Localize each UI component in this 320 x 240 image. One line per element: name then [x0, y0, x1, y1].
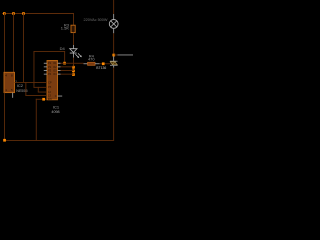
wire H5 EN to IC1 — [36, 98, 47, 101]
node bottom left corner — [3, 139, 6, 142]
node rail junction 2 — [12, 12, 15, 15]
IC2 body 555 — [4, 72, 15, 92]
wire branch to right edge — [114, 54, 118, 57]
wire row O3 stub — [58, 69, 74, 72]
svg-text:C: C — [55, 94, 57, 98]
LED arrow 1 — [75, 54, 78, 57]
svg-text:CP: CP — [48, 81, 52, 85]
svg-text:P2: P2 — [48, 65, 52, 69]
svg-text:P5: P5 — [48, 85, 52, 89]
wire LED cathode down across output rows — [72, 58, 75, 75]
wire D4 branch vertical to row O1 — [63, 51, 66, 63]
node rail junction 1 — [3, 12, 6, 15]
lead triac bottom — [112, 66, 115, 68]
pin stub P4 — [44, 73, 47, 76]
wire bottom ground rail — [4, 139, 114, 142]
wire row O4 stub — [58, 73, 74, 76]
svg-text:O2: O2 — [53, 65, 57, 69]
LED D4 triangle — [70, 49, 77, 53]
node H5 junction — [42, 98, 45, 101]
wire V8 EN down to bottom rail — [35, 99, 38, 141]
wire R4 to triac gate — [100, 62, 111, 65]
node stub O2 — [72, 66, 75, 69]
pin stub C output — [58, 95, 63, 98]
wire H3 to IC1 — [38, 91, 47, 94]
lead R4 right — [95, 62, 100, 65]
node D4 branch on row O1 — [63, 62, 66, 65]
lead triac top — [112, 56, 115, 61]
pin stub P1 — [44, 62, 47, 65]
wire V3 rail down to H1 — [22, 13, 25, 83]
node gate junction — [102, 62, 105, 65]
lamp L1 — [109, 20, 118, 29]
IC1 body — [47, 61, 58, 100]
wire R3 to LED — [72, 33, 75, 45]
svg-text:P3: P3 — [48, 68, 52, 72]
svg-text:1.5K: 1.5K — [61, 26, 70, 31]
wire V1 rail to IC2 pin4 — [3, 13, 6, 73]
wire H2 to IC1 — [34, 86, 48, 89]
wire D4 branch horizontal — [34, 50, 66, 53]
lead LED cathode — [72, 54, 75, 58]
svg-text:EN: EN — [48, 97, 52, 101]
wire top supply rail — [2, 13, 74, 14]
lead LED anode — [72, 45, 75, 49]
node stub O3 — [72, 70, 75, 73]
svg-text:P4: P4 — [48, 72, 52, 76]
wire V2 rail to IC2 pin8 — [12, 13, 15, 73]
wire rail to R3 top — [72, 13, 75, 25]
svg-text:4098: 4098 — [51, 110, 59, 114]
node lamp-triac junction — [112, 54, 115, 57]
wire triac bottom to rail — [112, 68, 115, 141]
wire lamp to triac node — [112, 33, 115, 54]
svg-text:O1: O1 — [53, 61, 57, 65]
wire H1 555 output to IC1 — [15, 81, 48, 84]
svg-text:220VAc 500W: 220VAc 500W — [84, 18, 108, 22]
node stub O4 — [72, 73, 75, 76]
lead lamp bottom — [112, 28, 115, 33]
triac Q1 BT136 — [110, 60, 118, 63]
svg-text:470: 470 — [88, 56, 95, 61]
pin stub IC2 pin5 — [11, 93, 14, 98]
LED D4 cathode bar — [70, 52, 77, 55]
resistor R4 — [88, 62, 95, 65]
svg-text:IC1: IC1 — [53, 105, 60, 110]
wire row O1 to R4 — [58, 62, 84, 65]
lamp wire from top edge — [112, 0, 115, 14]
svg-text:P1: P1 — [48, 61, 52, 65]
lead lamp top — [112, 14, 115, 20]
lead R4 left — [84, 62, 88, 65]
svg-text:D4: D4 — [60, 46, 66, 51]
svg-text:BT136: BT136 — [96, 66, 106, 70]
wire V6 jog — [37, 87, 40, 92]
svg-text:O3: O3 — [53, 68, 57, 72]
wire V5 D4 line down to H2 — [33, 51, 36, 88]
wire H4 to IC1 — [25, 94, 47, 97]
LED arrow 2 — [78, 53, 81, 56]
pin stub P2 — [44, 65, 47, 68]
svg-text:O4: O4 — [53, 72, 57, 76]
svg-text:IC2: IC2 — [17, 83, 24, 88]
pin stub P3 — [44, 69, 47, 72]
node rail junction 3 — [22, 12, 25, 15]
wire row O2 stub — [58, 65, 74, 68]
wire IC2 pin1 to bottom rail — [3, 93, 6, 141]
resistor R3 — [71, 25, 75, 32]
wire V7 H1 to H4 — [24, 82, 27, 96]
